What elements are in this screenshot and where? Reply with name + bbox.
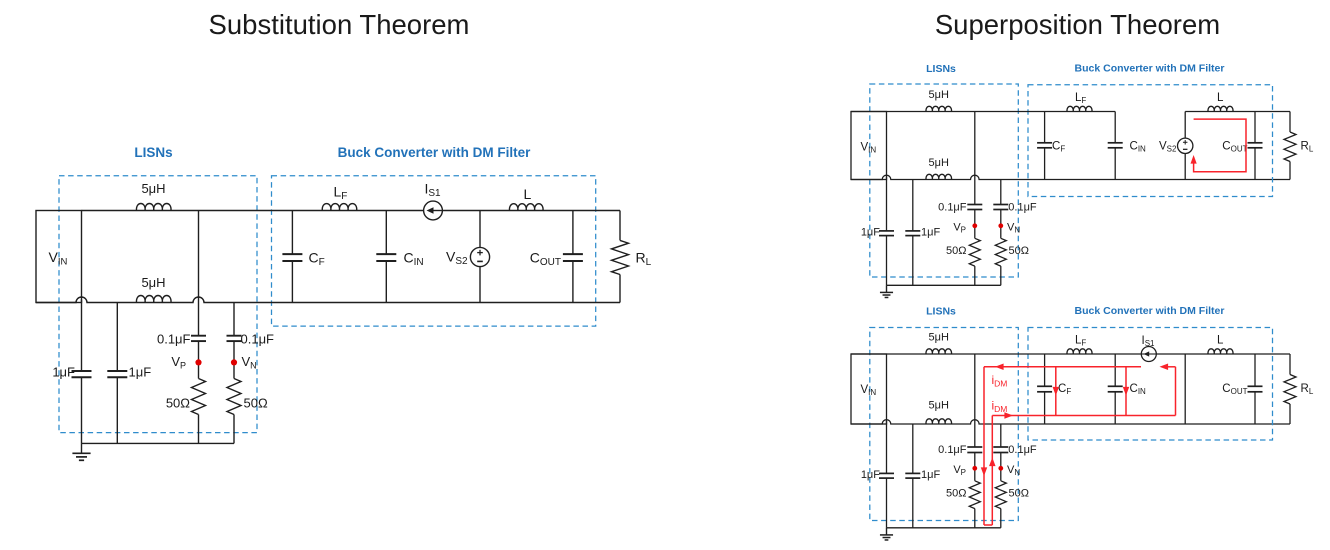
svg-text:5μH: 5μH [928, 399, 948, 411]
capacitor 0.1uF P (bottom-right) [967, 446, 982, 448]
svg-text:0.1μF: 0.1μF [1008, 202, 1037, 214]
inductor 5uH line P (left) [136, 204, 171, 211]
svg-text:0.1μF: 0.1μF [938, 202, 967, 214]
svg-text:50Ω: 50Ω [244, 396, 268, 411]
svg-text:50Ω: 50Ω [1009, 488, 1029, 500]
inductor L (top-right) [1208, 106, 1233, 111]
svg-text:50Ω: 50Ω [166, 396, 190, 411]
capacitor CIN branch (left) [385, 211, 387, 255]
wire vertical VP branch from top rail (left) [198, 211, 200, 336]
current source IS1 (bottom-right) [1141, 347, 1156, 362]
wire bottom rail with hops (bottom-right) [851, 420, 1290, 424]
svg-text:LISNs: LISNs [134, 145, 172, 160]
node VP red dot (left) [195, 359, 201, 365]
svg-text:L: L [1217, 92, 1224, 104]
svg-text:5μH: 5μH [928, 157, 948, 169]
svg-text:5μH: 5μH [141, 275, 165, 290]
wire vertical VP branch (top-right) [974, 112, 976, 205]
node VN red dot (left) [231, 359, 237, 365]
svg-text:50Ω: 50Ω [1009, 245, 1029, 257]
svg-text:0.1μF: 0.1μF [1008, 444, 1037, 456]
wire top rail segment (top-right) [1185, 111, 1290, 113]
capacitor 1uF #1 (left) [72, 370, 92, 372]
inductor L (left) [509, 204, 543, 211]
resistor 50ohm P (bottom-right) [969, 481, 980, 509]
svg-text:Buck Converter with DM Filter: Buck Converter with DM Filter [338, 145, 532, 160]
capacitor COUT branch (top-right) [1254, 112, 1256, 143]
svg-text:5μH: 5μH [141, 181, 165, 196]
red vertical up to bottom line (bottom-right) [991, 416, 993, 526]
svg-text:0.1μF: 0.1μF [938, 444, 967, 456]
capacitor CIN branch (bottom-right) [1114, 354, 1116, 386]
node VN dot (bottom-right) [998, 466, 1003, 471]
capacitor CIN branch (top-right) [1114, 112, 1116, 143]
wire vertical 1uF #2 branch (top-right) [912, 180, 914, 231]
LISNs dashed box (left) [59, 176, 257, 433]
capacitor CF branch (bottom-right) [1044, 354, 1046, 386]
wire vertical 1uF #2 branch (bottom-right) [912, 424, 914, 473]
red right-side return (bottom-right) [1175, 367, 1177, 416]
ground symbol (top-right) [886, 285, 888, 292]
red U-turn at bottom (bottom-right) [984, 524, 992, 526]
inductor 5uH line N (left) [136, 296, 171, 303]
svg-text:1μF: 1μF [921, 227, 940, 239]
svg-text:Superposition Theorem: Superposition Theorem [935, 9, 1220, 40]
capacitor 1uF #1 (bottom-right) [879, 472, 894, 474]
source VIN box (top-right) [851, 112, 887, 180]
source VIN box (bottom-right) [851, 354, 887, 424]
wire vertical at VIN right edge down to 1uF (left) [81, 300, 83, 372]
voltage source VS2 branch (left) [479, 211, 481, 248]
node VP dot (bottom-right) [972, 466, 977, 471]
wire vertical VIN right edge to 1uF#1 (bottom-right) [886, 421, 888, 473]
wire bottom rail with hops (top-right) [851, 175, 1290, 179]
red arrowhead down near VP (bottom-right) [981, 467, 988, 476]
red arrowhead left on top line (bottom-right) [995, 364, 1004, 371]
red branch arrow at CF (bottom-right) [1055, 367, 1057, 416]
svg-text:Buck Converter with DM Filter: Buck Converter with DM Filter [1075, 63, 1225, 75]
red arrowhead left near IS1 (bottom-right) [1160, 364, 1169, 371]
Buck Converter dashed box (left) [272, 176, 596, 326]
LISNs dashed box (bottom-right) [870, 328, 1019, 521]
capacitor 1uF #1 (top-right) [879, 230, 894, 232]
svg-text:0.1μF: 0.1μF [241, 332, 275, 347]
resistor 50ohm N (bottom-right) [995, 481, 1006, 509]
inductor 5uH line P (bottom-right) [926, 349, 952, 354]
svg-text:Substitution Theorem: Substitution Theorem [209, 9, 470, 40]
red vertical down from top line to 50ohm region (bottom-right) [983, 367, 985, 525]
red arrowhead right on bottom line (bottom-right) [1004, 412, 1013, 419]
svg-text:1μF: 1μF [861, 227, 880, 239]
capacitor 1uF #2 (top-right) [905, 230, 920, 232]
red branch arrow at CIN (bottom-right) [1125, 367, 1127, 416]
load resistor RL (top-right) [1289, 112, 1291, 133]
capacitor CF branch (top-right) [1044, 112, 1046, 143]
svg-text:50Ω: 50Ω [946, 488, 966, 500]
red iDM top line (bottom-right) [984, 366, 1141, 368]
wire bottom rail with crossover hops (left) [36, 297, 620, 303]
red arrowhead up (top-right) [1191, 155, 1197, 164]
capacitor 1uF #2 (bottom-right) [905, 472, 920, 474]
wire vertical VN branch from bottom rail (left) [233, 303, 235, 336]
svg-text:LISNs: LISNs [926, 305, 956, 317]
svg-text:1μF: 1μF [52, 365, 75, 380]
wire ground return (top-right) [887, 284, 1001, 286]
capacitor 0.1uF N (bottom-right) [993, 446, 1008, 448]
ground symbol (bottom-right) [886, 528, 888, 535]
inductor LF (left) [322, 204, 357, 211]
wire vertical VN branch (top-right) [1000, 180, 1002, 205]
svg-text:1μF: 1μF [129, 365, 152, 380]
wire VS2 shorted branch (bottom-right) [1184, 354, 1186, 424]
capacitor 0.1uF P (top-right) [967, 204, 982, 206]
red iDM bottom line (bottom-right) [992, 415, 1175, 417]
wire top rail segment (bottom-right) [851, 353, 1290, 355]
capacitor 1uF #2 (left) [107, 370, 127, 372]
Buck Converter dashed box (top-right) [1028, 85, 1273, 197]
svg-text:L: L [524, 186, 532, 202]
wire ground return (bottom-right) [887, 527, 1001, 529]
wire vertical VIN right edge to 1uF#1 (top-right) [886, 177, 888, 231]
svg-text:L: L [1217, 335, 1224, 347]
svg-text:5μH: 5μH [928, 332, 948, 344]
svg-text:1μF: 1μF [861, 469, 880, 481]
resistor 50ohm N (left) [227, 379, 241, 415]
wire vertical 1uF #2 branch (left) [116, 303, 118, 372]
inductor L (bottom-right) [1208, 349, 1233, 354]
wire ground return (left) [82, 442, 235, 444]
wire vertical VP branch (bottom-right) [974, 354, 976, 447]
inductor 5uH line N (top-right) [926, 174, 952, 179]
svg-text:Buck Converter with DM Filter: Buck Converter with DM Filter [1075, 305, 1225, 317]
capacitor COUT branch (bottom-right) [1254, 354, 1256, 386]
resistor 50ohm P (left) [192, 379, 206, 415]
load resistor RL branch (left) [619, 211, 621, 241]
source VIN box (left) [36, 211, 82, 303]
capacitor 0.1uF P (left) [191, 335, 206, 337]
node VN dot (top-right) [998, 223, 1003, 228]
capacitor CF branch (left) [291, 211, 293, 255]
svg-text:LISNs: LISNs [926, 63, 956, 75]
resistor 50ohm P (top-right) [969, 238, 980, 266]
wire vertical VN branch (bottom-right) [1000, 424, 1002, 447]
LISNs dashed box (top-right) [870, 84, 1019, 277]
wire top rail (left) [82, 210, 621, 212]
svg-text:1μF: 1μF [921, 469, 940, 481]
load resistor RL (bottom-right) [1289, 354, 1291, 375]
svg-text:50Ω: 50Ω [946, 245, 966, 257]
voltage source VS2 branch (top-right) [1184, 112, 1186, 139]
resistor 50ohm N (top-right) [995, 238, 1006, 266]
wire top rail segment (top-right) [851, 111, 1115, 113]
current source IS1 (left) [424, 201, 443, 220]
inductor 5uH line N (bottom-right) [926, 419, 952, 424]
inductor LF (bottom-right) [1067, 349, 1092, 354]
inductor 5uH line P (top-right) [926, 106, 952, 111]
node VP dot (top-right) [972, 223, 977, 228]
ground symbol (left) [81, 443, 83, 453]
capacitor 0.1uF N (top-right) [993, 204, 1008, 206]
red mesh current loop around VS2-L-COUT (top-right) [1194, 119, 1246, 172]
red arrowhead up near VN (bottom-right) [989, 458, 996, 467]
svg-text:0.1μF: 0.1μF [157, 332, 191, 347]
svg-text:5μH: 5μH [928, 89, 948, 101]
capacitor 0.1uF N (left) [227, 335, 242, 337]
Buck Converter dashed box (bottom-right) [1028, 328, 1273, 441]
inductor LF (top-right) [1067, 106, 1092, 111]
capacitor COUT branch (left) [572, 211, 574, 255]
